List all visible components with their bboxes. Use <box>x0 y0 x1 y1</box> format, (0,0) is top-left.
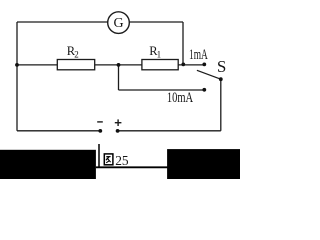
svg-text:1: 1 <box>157 49 162 59</box>
svg-text:G: G <box>113 16 123 31</box>
svg-text:25: 25 <box>115 154 128 169</box>
svg-text:2: 2 <box>74 49 79 59</box>
svg-text:10mA: 10mA <box>167 90 194 106</box>
svg-text:1mA: 1mA <box>189 47 208 63</box>
svg-text:S: S <box>217 57 226 76</box>
